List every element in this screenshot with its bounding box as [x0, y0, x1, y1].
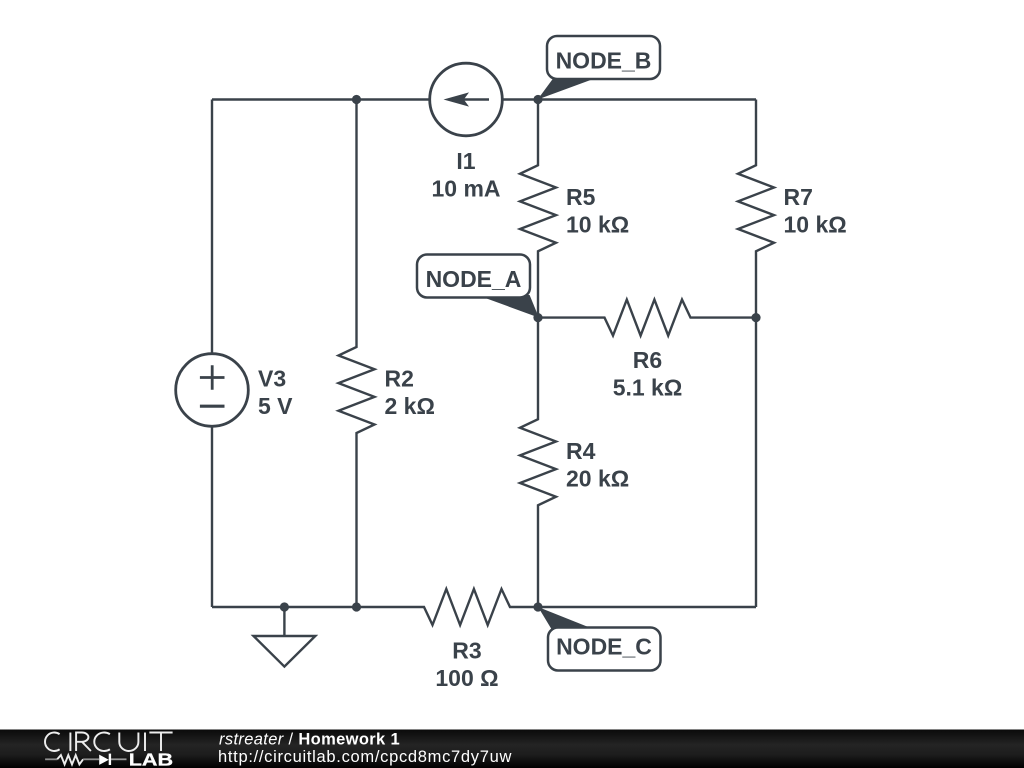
junction dot NODE_B — [533, 95, 542, 104]
current source I1 circle — [430, 63, 503, 136]
junction dot R2 top — [352, 95, 361, 104]
I1 arrow — [444, 92, 490, 106]
svg-text:rstreater / Homework 1: rstreater / Homework 1 — [219, 730, 400, 748]
svg-text:100 Ω: 100 Ω — [435, 665, 498, 691]
logo diode symbol — [99, 755, 109, 765]
junction dot NODE_C — [533, 602, 542, 611]
wire left rail below V3 — [211, 428, 213, 608]
svg-text:R5: R5 — [566, 184, 596, 210]
node flag NODE_B box — [547, 36, 660, 79]
svg-text:5 V: 5 V — [258, 393, 293, 419]
node flag NODE_C box — [548, 628, 661, 671]
junction dot NODE_A — [533, 313, 542, 322]
svg-text:V3: V3 — [258, 366, 286, 392]
resistor R5 branch NODE_B to NODE_A — [520, 100, 556, 318]
svg-text:R6: R6 — [633, 347, 662, 373]
resistor R2 branch with zigzag — [339, 100, 375, 608]
svg-text:2 kΩ: 2 kΩ — [385, 393, 435, 419]
junction dot R2 bottom — [352, 602, 361, 611]
svg-text:10 kΩ: 10 kΩ — [566, 212, 629, 238]
svg-text:10 kΩ: 10 kΩ — [784, 212, 847, 238]
node flag NODE_A box — [417, 255, 530, 298]
svg-text:NODE_C: NODE_C — [556, 634, 652, 660]
footer bar — [0, 730, 1024, 768]
svg-text:R4: R4 — [566, 438, 596, 464]
resistor R4 branch NODE_A to NODE_C — [520, 318, 556, 607]
resistor R3 bottom rail with zigzag — [212, 589, 756, 625]
logo resistor zigzag — [45, 758, 57, 760]
logo CIRCUIT letters — [45, 733, 173, 752]
svg-text:NODE_B: NODE_B — [556, 48, 652, 74]
resistor R6 horizontal wire NODE_A to right rail — [538, 300, 756, 336]
voltage source V3 circle — [176, 354, 249, 427]
svg-text:R2: R2 — [385, 366, 414, 392]
V3 plus sign — [200, 365, 225, 389]
svg-text:NODE_A: NODE_A — [426, 266, 522, 292]
ground symbol — [254, 607, 316, 667]
wire top rail right of I1 — [504, 98, 757, 100]
node flag NODE_C wedge — [538, 607, 593, 629]
svg-text:R3: R3 — [452, 638, 481, 664]
svg-text:5.1 kΩ: 5.1 kΩ — [613, 375, 683, 401]
junction dot R6 right — [751, 313, 760, 322]
wire top rail left of I1 — [212, 98, 429, 100]
svg-text:I1: I1 — [456, 148, 475, 174]
node flag NODE_A wedge — [477, 295, 539, 318]
node flag NODE_B wedge — [538, 79, 594, 100]
svg-text:LAB: LAB — [129, 750, 173, 768]
svg-text:20 kΩ: 20 kΩ — [566, 466, 629, 492]
svg-text:R7: R7 — [784, 184, 813, 210]
resistor R7 right branch — [738, 100, 774, 608]
V3 minus sign — [200, 405, 225, 408]
junction dot ground — [280, 602, 289, 611]
wire left rail above V3 — [211, 100, 213, 353]
svg-text:http://circuitlab.com/cpcd8mc7: http://circuitlab.com/cpcd8mc7dy7uw — [218, 748, 512, 766]
svg-text:10 mA: 10 mA — [431, 176, 500, 202]
